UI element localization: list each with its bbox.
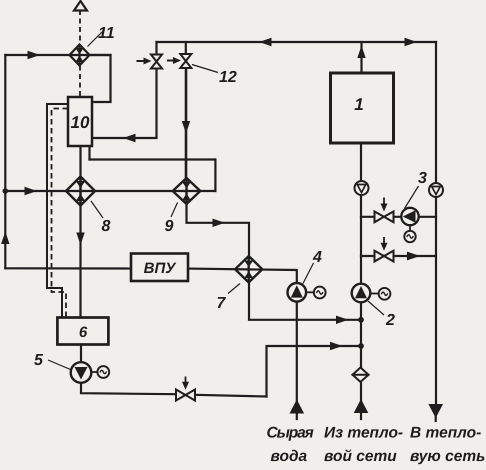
box 1 (331, 73, 394, 143)
wire left bus vertical (4, 55, 6, 268)
wire branch y217 (pump 3 line) (361, 216, 436, 218)
check valve circle on boiler column (355, 181, 369, 195)
junction dot left bus y191 (3, 188, 9, 194)
svg-text:вой сети: вой сети (324, 448, 397, 465)
box 6 (57, 318, 108, 345)
arrow right on line B (330, 342, 343, 350)
wire bottom line valve to riser (195, 395, 267, 397)
diamond 11 (70, 45, 90, 66)
svg-text:вода: вода (271, 448, 308, 465)
label 8 with leader (91, 201, 103, 218)
svg-text:7: 7 (217, 295, 227, 312)
wire main vertical box10 - diamond 8 - box 6 (79, 146, 81, 318)
pump 3 (circle, triangle left) (401, 208, 418, 225)
arrow up from box 1 (357, 46, 365, 59)
arrow left on top line (259, 38, 272, 46)
label 12 with leader (192, 65, 218, 73)
wire valve A drop from top line (155, 42, 157, 55)
svg-text:вую сеть: вую сеть (410, 448, 485, 465)
arrow right on y191 (25, 187, 38, 195)
wire line A: diamond 7 bottom to heat-net column (249, 283, 361, 320)
wire diamond 9 down, right, down to diamond 7 (187, 204, 250, 256)
label 5 with leader (48, 360, 71, 370)
box 10 (68, 97, 92, 146)
svg-text:6: 6 (79, 324, 88, 341)
wire raw water arrow tail (296, 411, 298, 419)
label 7 with leader (228, 284, 240, 294)
wire y159 back to box 10 (90, 158, 216, 160)
diamond 8 (66, 177, 95, 206)
wire heat-net column: box1 bottom down to bottom arrow (360, 143, 362, 402)
arrow right on line A (336, 316, 349, 324)
junction dot line B (358, 343, 364, 349)
wire heat-net column arrow tail (360, 412, 362, 419)
impulse line pair (solid) from box 10 to box 6 (47, 104, 68, 318)
svg-text:3: 3 (418, 170, 427, 187)
wire right bus down (435, 42, 437, 404)
wire valve B drop (185, 42, 187, 54)
label 9 with leader (171, 203, 178, 218)
valve 12a inlet arrow (137, 60, 146, 62)
svg-text:11: 11 (98, 25, 115, 42)
dashed vent line above diamond 11 (79, 10, 81, 45)
label 3 with leader (405, 186, 419, 209)
dashed line diamond 11 to box 10 (79, 66, 81, 98)
wire raw water column below pump 4 (296, 302, 298, 403)
diamond 9 (173, 178, 201, 204)
pump 3 motor circle (409, 226, 411, 232)
svg-text:ВПУ: ВПУ (144, 260, 178, 277)
svg-text:10: 10 (71, 113, 90, 132)
heat net outlet arrow (down) (428, 404, 443, 418)
check valve circle on right bus (429, 183, 443, 197)
wire valve B down to diamond 9 (thick) (185, 69, 188, 179)
svg-text:В тепло-: В тепло- (410, 425, 481, 442)
pump 4 (circle, triangle up) (288, 283, 307, 302)
arrow right on branch y256 (407, 252, 420, 261)
svg-text:5: 5 (34, 352, 44, 369)
wire branch y256 (361, 255, 436, 257)
pump 2 gauge (371, 293, 379, 295)
wire right bus arrow tail (435, 414, 437, 421)
arrow left into box 10 y138 (123, 134, 136, 142)
valve 12a (vertical gate valve) (151, 55, 162, 69)
svg-text:Сырая: Сырая (267, 425, 314, 442)
arrow up on left bus (1, 232, 9, 245)
arrow down on valve B column (182, 121, 190, 134)
valve 12b inlet arrow (167, 60, 175, 62)
svg-text:Из тепло-: Из тепло- (324, 425, 403, 442)
diamond 7 (235, 256, 262, 282)
wire VPU box through diamond 7 to raw water column (188, 269, 297, 284)
box VPU (water treatment) (131, 254, 188, 282)
control valve on bottom line (176, 390, 195, 401)
flow meter diamond on heat-net column (352, 368, 370, 382)
wire left bus top horizontal through diamond 11 (5, 54, 110, 56)
control valve on branch y256 (375, 251, 394, 262)
wire VPU line from bus to VPU box (5, 267, 131, 269)
control valve on branch y217 (375, 212, 394, 223)
wire top main line y42 (157, 41, 437, 43)
label 4 with leader (303, 263, 314, 284)
wire stub under box 10 (88, 146, 90, 160)
valve 12b (vertical gate valve) (180, 54, 191, 68)
svg-text:4: 4 (312, 249, 322, 266)
arrow right on diamond9-7 link (213, 219, 226, 227)
raw water inlet arrow (up) (290, 400, 305, 414)
pump 2 (circle, triangle up) (352, 284, 371, 303)
heat net inlet arrow (up) (354, 399, 369, 413)
svg-text:1: 1 (354, 95, 363, 114)
impulse line pair (dashed) (52, 109, 69, 318)
vent triangle (atmosphere) (74, 1, 87, 11)
wire valve A to box 10 (down then left) (92, 69, 157, 139)
wire pump 5 down to bottom line (81, 383, 176, 395)
wire riser x215 up (214, 160, 216, 192)
pump 5 (circle, triangle down) (71, 362, 92, 383)
svg-text:8: 8 (102, 218, 111, 235)
svg-text:2: 2 (385, 312, 395, 329)
pump 4 gauge (306, 291, 314, 293)
arrow right on top line (405, 38, 418, 46)
wire box1 up to top line (360, 42, 362, 73)
wire box 6 to pump 5 (80, 345, 82, 364)
wire line B: bottom line riser to heat-net column (267, 346, 362, 397)
pump 5 gauge (92, 371, 98, 373)
arrow down on main vertical above box 6 (76, 233, 84, 246)
arrow right on y55 line (28, 51, 41, 59)
label 2 with leader (368, 301, 384, 315)
wire y191 horizontal through diamonds 8-9 to riser (5, 190, 215, 192)
label 11 with leader (88, 31, 104, 47)
svg-text:9: 9 (165, 218, 174, 235)
wire loop right of diamond 11 into box 10 (90, 55, 111, 102)
svg-text:12: 12 (219, 69, 237, 86)
junction dot line A (358, 317, 364, 323)
